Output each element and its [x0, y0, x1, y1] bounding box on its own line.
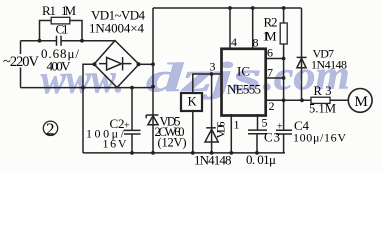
svg-text:3: 3	[210, 60, 216, 74]
diode VD6 wire	[211, 74, 213, 153]
svg-text:7: 7	[267, 66, 273, 80]
svg-text:1N4148: 1N4148	[194, 153, 232, 168]
wire 555 pin1	[230, 114, 232, 153]
diode VD6 symbol	[206, 127, 216, 129]
svg-text:1M: 1M	[61, 3, 76, 18]
svg-text:IC: IC	[237, 64, 250, 79]
wire top rail	[153, 7, 302, 9]
svg-text:VD6: VD6	[214, 122, 228, 139]
capacitor C4 plates	[276, 130, 292, 134]
wire VD7 vertical	[301, 8, 303, 100]
svg-text:1N4004×4: 1N4004×4	[89, 21, 145, 36]
wire 555 pin5	[257, 114, 259, 130]
wire AC top line	[21, 40, 116, 42]
svg-text:1M: 1M	[263, 29, 277, 44]
svg-text:+: +	[277, 122, 283, 133]
bridge rectifier VD1-VD4 diamond	[94, 41, 139, 88]
svg-text:4: 4	[231, 35, 237, 49]
wire C4 bottom	[283, 134, 285, 153]
wire DC+ bridge right corner	[139, 63, 153, 65]
watermark www.dzjs.com	[40, 51, 350, 102]
wire 555 pin8	[252, 8, 254, 48]
svg-text:2: 2	[269, 99, 275, 113]
wire 555 pin7	[266, 77, 284, 79]
wire 555 pin3 to relay K	[193, 74, 222, 93]
svg-text:C1: C1	[56, 22, 69, 37]
svg-text:1: 1	[234, 118, 240, 132]
label ~220V	[2, 54, 40, 68]
capacitor C1 plates	[57, 36, 62, 46]
bridge inner diode	[99, 63, 132, 65]
resistor R1 branch	[40, 21, 83, 41]
wire rail A	[21, 87, 154, 89]
wire R2 top	[283, 8, 285, 23]
capacitor C2 wire top	[131, 88, 133, 131]
wire 555 pin2 to R3	[266, 99, 311, 101]
wire rail B ground	[83, 152, 285, 154]
svg-text:R1: R1	[42, 3, 56, 18]
svg-text:8: 8	[253, 36, 259, 50]
motor M circle	[348, 89, 372, 113]
svg-text:~220V: ~220V	[3, 54, 40, 70]
resistor R2 body	[280, 23, 287, 44]
symbol circled 2	[43, 121, 57, 135]
wire 555 pin6	[266, 58, 284, 60]
relay K box	[181, 93, 202, 111]
svg-text:5.1M: 5.1M	[309, 102, 336, 116]
svg-text:(12V): (12V)	[158, 136, 187, 150]
capacitor C4 wire top	[283, 100, 285, 130]
diode VD7 symbol	[297, 56, 307, 58]
svg-text:5: 5	[262, 115, 268, 129]
zener VD5 symbol	[146, 115, 158, 118]
svg-text:R2: R2	[264, 15, 278, 30]
svg-text:100μ/16V: 100μ/16V	[293, 131, 346, 145]
wire C2 bottom	[131, 134, 133, 153]
svg-text:1N4148: 1N4148	[311, 58, 347, 72]
resistor R3 body	[311, 97, 330, 103]
wire C3 bottom	[256, 134, 258, 153]
svg-text:0. 01μ: 0. 01μ	[246, 152, 276, 167]
resistor R1 body	[51, 17, 70, 24]
svg-text:K: K	[188, 95, 197, 109]
svg-text:16V: 16V	[103, 137, 127, 151]
wire left input bracket	[20, 41, 22, 88]
wire R2 bottom to pin2 node	[283, 44, 285, 100]
svg-text:M: M	[355, 94, 368, 110]
capacitor C2 plates	[124, 130, 141, 134]
wire bridge left corner to ground rail	[83, 64, 94, 153]
wire main vertical DC line x=153	[152, 8, 154, 153]
svg-text:6: 6	[267, 46, 273, 60]
capacitor C3 plates	[248, 130, 267, 134]
wire K bottom to rail B	[192, 111, 194, 153]
svg-text:+: +	[124, 121, 130, 132]
wire 555 pin4	[229, 8, 231, 48]
svg-text:400V: 400V	[47, 59, 72, 74]
wire R3 to motor	[330, 99, 348, 101]
svg-text:2: 2	[46, 119, 55, 138]
op-amp U1 IC NE555 box	[222, 49, 266, 116]
svg-text:NE555: NE555	[227, 82, 261, 97]
